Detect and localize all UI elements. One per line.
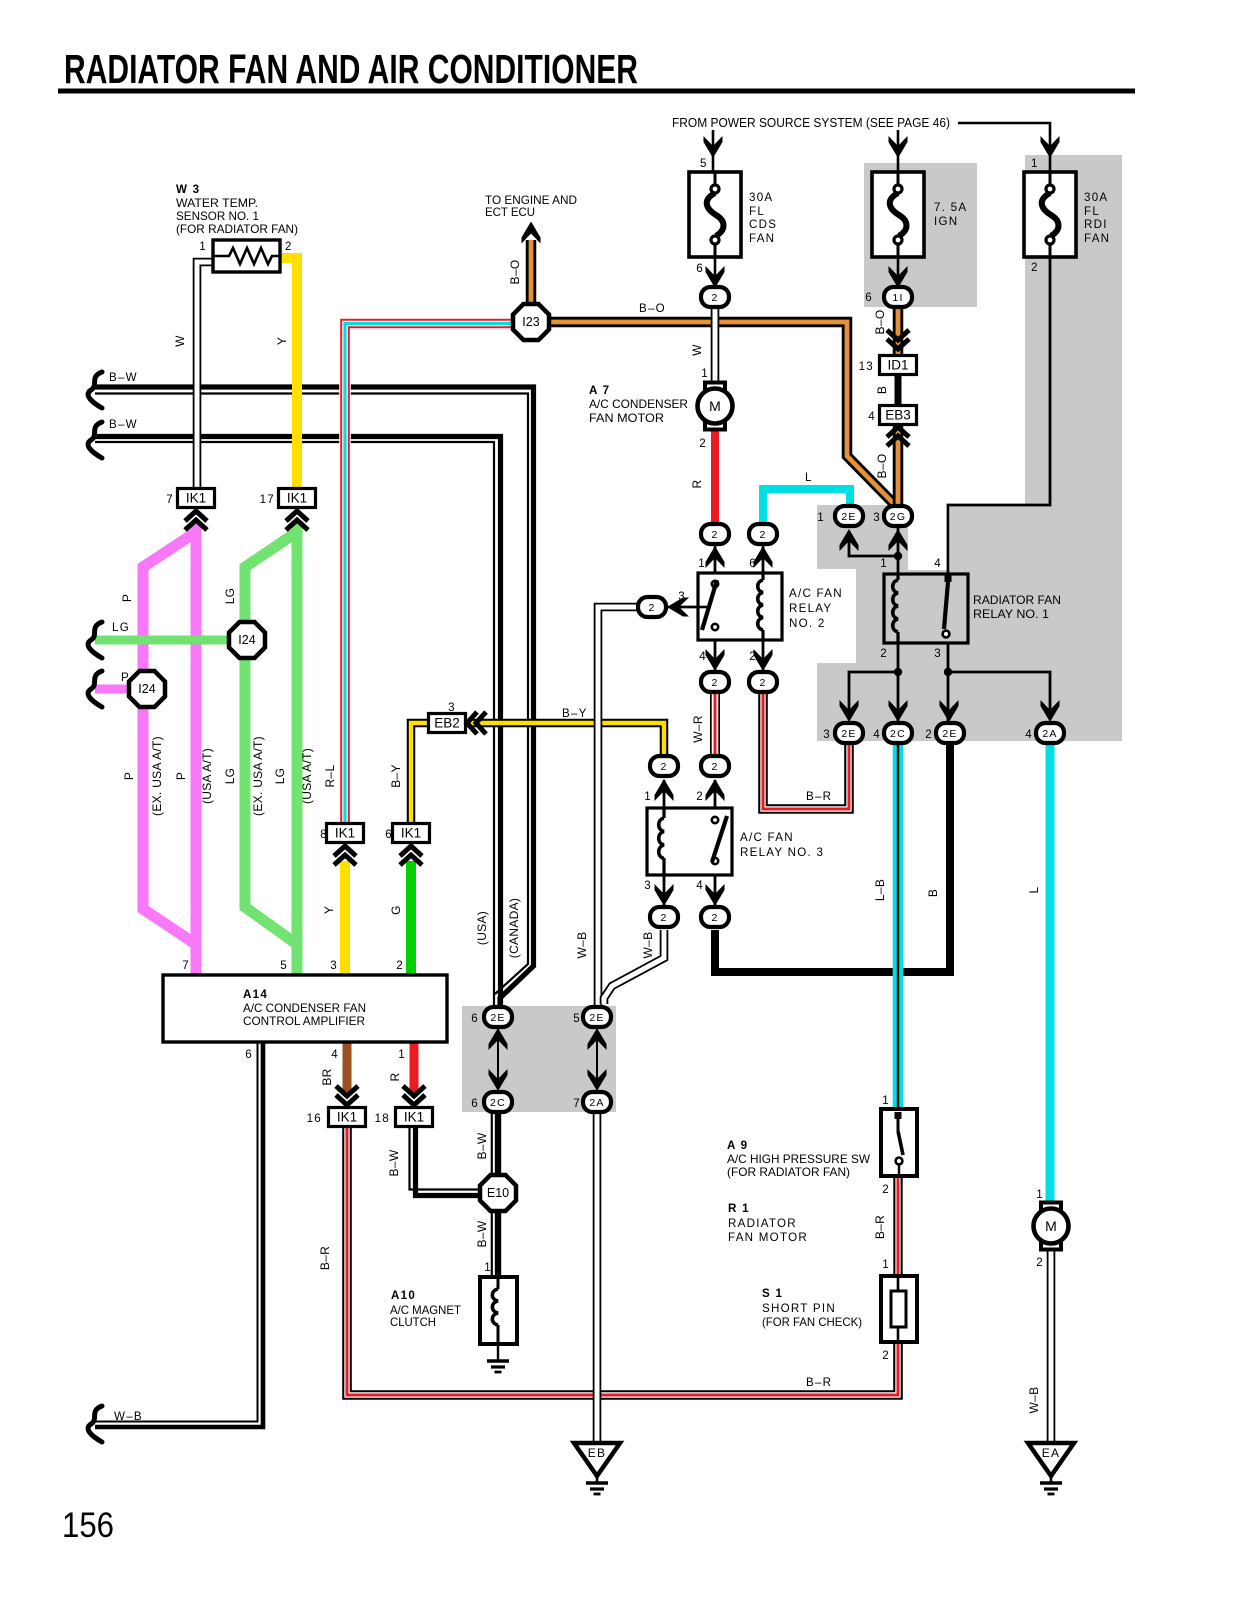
svg-text:ID1: ID1 <box>887 358 908 373</box>
chevrons into EB2 <box>467 712 486 734</box>
label A14 <box>243 988 268 1001</box>
connector 2E(5) <box>583 1007 611 1027</box>
chevrons below IK1(7) <box>185 511 207 530</box>
arrow into IGN fuse <box>889 136 908 158</box>
svg-text:R–L: R–L <box>323 765 337 788</box>
svg-text:1: 1 <box>880 557 888 570</box>
label 3 <box>644 879 652 892</box>
short pin box S1 <box>881 1276 917 1342</box>
label CONTROL AMPLIFIER <box>243 1015 365 1028</box>
label (CANADA) <box>507 898 521 958</box>
arrow up into connector above pin 6 <box>754 546 773 568</box>
relay box radiator fan relay no.1 <box>884 574 968 643</box>
arrow down into 2C(6) <box>489 1069 508 1091</box>
svg-text:2: 2 <box>749 650 757 663</box>
svg-text:2: 2 <box>1031 261 1039 274</box>
connector 2 below CDS fuse <box>701 287 729 307</box>
wire B-W bus no.2 (to USA branch) <box>95 437 501 1007</box>
label FAN <box>1084 232 1110 245</box>
svg-text:2E: 2E <box>490 1012 505 1024</box>
label NO. 2 <box>789 617 826 630</box>
connector box EB2 <box>429 714 466 733</box>
svg-text:5: 5 <box>573 1012 581 1025</box>
label R 1 <box>728 1202 750 1215</box>
wire relay no.2 pin 1 to connector <box>714 546 717 574</box>
svg-text:B–W: B–W <box>475 1132 489 1159</box>
svg-text:Y: Y <box>275 337 289 345</box>
relay no.2 switch <box>698 580 718 630</box>
label SENSOR NO. 1 <box>176 210 259 223</box>
svg-text:4: 4 <box>331 1048 339 1061</box>
label RELAY NO. 3 <box>740 846 824 859</box>
label (FOR RADIATOR FAN) <box>176 223 298 236</box>
label R–L <box>323 765 337 788</box>
clutch box A10 <box>480 1277 517 1344</box>
label BR <box>320 1068 334 1085</box>
svg-text:LG: LG <box>112 621 130 634</box>
label 1 <box>1036 1188 1044 1201</box>
amplifier box A14 <box>163 975 447 1042</box>
svg-text:I24: I24 <box>138 682 155 696</box>
wire P stub from harness brace to I24 <box>95 685 132 694</box>
svg-text:2: 2 <box>699 437 707 450</box>
svg-text:1: 1 <box>644 790 652 803</box>
wire relay no.2 pin 2 to connector <box>762 640 765 670</box>
label 16 <box>307 1112 322 1125</box>
svg-text:LG: LG <box>273 768 287 785</box>
label FAN <box>749 232 775 245</box>
svg-text:RELAY: RELAY <box>789 602 832 615</box>
connector 2A(7) <box>583 1092 611 1112</box>
wire B-R from S1 pin 2 via bottom run to IK1(16) <box>347 1127 898 1395</box>
label (EX. USA A/T) <box>251 736 265 816</box>
label CLUTCH <box>390 1316 436 1329</box>
connector IK1 pin 8 <box>327 824 364 843</box>
wire G from IK1(6) to A14 pin 2 <box>406 861 416 975</box>
label WATER TEMP. <box>176 197 258 210</box>
svg-text:2E: 2E <box>841 511 856 523</box>
svg-text:A/C CONDENSER FAN: A/C CONDENSER FAN <box>243 1002 366 1015</box>
wire B-R relay no.2 pin 2 to 2E(3) <box>763 693 849 809</box>
svg-text:7: 7 <box>182 959 190 972</box>
label 2 <box>1036 1256 1044 1269</box>
label (FOR FAN CHECK) <box>762 1316 862 1329</box>
fuse 30A FL RDI FAN <box>1024 172 1076 257</box>
arrow to engine and ECT ECU <box>522 222 541 244</box>
label 1 <box>199 240 207 253</box>
arrow into connector 1I <box>889 266 908 288</box>
wire L from 2A(4) to R1 radiator fan motor <box>1046 743 1055 1204</box>
svg-text:B–Y: B–Y <box>389 764 403 788</box>
label A 9 <box>727 1139 748 1152</box>
switch box A9 high pressure <box>881 1109 917 1176</box>
arrow down into 2E(3) <box>840 700 859 722</box>
svg-text:FAN MOTOR: FAN MOTOR <box>589 412 664 425</box>
svg-text:2: 2 <box>759 677 766 689</box>
svg-text:156: 156 <box>62 1506 114 1545</box>
label B–R <box>806 790 832 803</box>
svg-text:4: 4 <box>934 557 942 570</box>
wire L-B from 2C(4) to A9 pin 1 <box>893 743 904 1110</box>
label 4 <box>1025 728 1033 741</box>
svg-text:B–W: B–W <box>387 1149 401 1176</box>
label B–O <box>873 310 887 335</box>
wire R-L from I23 to IK1(8) <box>345 324 513 827</box>
wire B from ID1 to EB3 <box>895 373 902 407</box>
svg-text:G: G <box>389 905 403 915</box>
svg-text:2: 2 <box>696 790 704 803</box>
label 2 <box>882 1183 890 1196</box>
svg-text:FL: FL <box>1084 205 1100 218</box>
fuse 7.5A IGN <box>872 172 924 257</box>
svg-text:A/C FAN: A/C FAN <box>740 831 794 844</box>
svg-text:BR: BR <box>320 1068 334 1085</box>
junction dot at relay no.1 pin 1 <box>894 552 902 560</box>
label A/C CONDENSER FAN <box>243 1002 366 1015</box>
label RELAY NO. 1 <box>973 608 1049 621</box>
label 3 <box>448 701 456 714</box>
svg-text:FAN: FAN <box>1084 232 1110 245</box>
connector 2 below relay2 pin2 <box>749 672 777 692</box>
wire relay no.1 pin 3 down to 2E(2) and 2A(4) <box>947 643 950 723</box>
arrow up into 2E(1) <box>840 529 859 551</box>
label 2 <box>1031 261 1039 274</box>
svg-text:RADIATOR FAN AND AIR CONDITION: RADIATOR FAN AND AIR CONDITIONER <box>64 46 638 92</box>
label 4 <box>696 879 704 892</box>
fuse 30A FL CDS FAN <box>689 172 741 257</box>
wire W-B from 2A(7) to EB ground <box>593 1112 602 1444</box>
shaded region: 2E/2C/2A junction block near A14 <box>462 1006 616 1112</box>
connector 2E(3) <box>835 723 863 743</box>
label B <box>926 889 940 897</box>
label L <box>805 471 813 484</box>
wire 2E(6) to 2C(6) <box>497 1028 499 1091</box>
svg-text:P: P <box>122 772 136 780</box>
wire relay no.3 pin 1 to connector <box>663 780 666 808</box>
label RDI <box>1084 218 1108 231</box>
arrow down into 2A(7) <box>588 1069 607 1091</box>
label (USA A/T) <box>200 748 214 804</box>
power feed line to 30A CDS fuse <box>712 130 715 172</box>
label 6 <box>471 1012 479 1025</box>
svg-text:A/C CONDENSER: A/C CONDENSER <box>589 398 688 411</box>
label 17 <box>260 493 275 506</box>
wire Y from IK1(8) to A14 pin 3 <box>340 861 350 975</box>
label A10 <box>391 1289 416 1302</box>
wire B-O from EB3 down to 2G <box>893 423 904 508</box>
connector 2 above relay2 pin6 <box>749 524 777 544</box>
relay box A/C fan relay no.3 <box>647 808 732 875</box>
label 30A <box>1084 191 1108 204</box>
label 2 <box>925 728 933 741</box>
svg-text:RADIATOR: RADIATOR <box>728 1217 797 1230</box>
label A/C FAN <box>789 587 843 600</box>
label A/C MAGNET <box>390 1304 461 1317</box>
svg-text:A14: A14 <box>243 988 268 1001</box>
chevrons out of EB3 <box>887 427 909 446</box>
svg-text:LG: LG <box>223 768 237 785</box>
label 1 <box>398 1048 406 1061</box>
label RADIATOR FAN <box>973 594 1061 607</box>
svg-text:FAN: FAN <box>749 232 775 245</box>
svg-text:Y: Y <box>322 906 336 914</box>
svg-text:6: 6 <box>471 1012 479 1025</box>
svg-text:17: 17 <box>260 493 275 506</box>
wire B-W from E10 to A10 magnet clutch <box>492 1209 498 1277</box>
wire relay no.2 pin 3 to connector 2 <box>668 606 698 609</box>
wire relay no.3 pin 4 to connector <box>714 875 717 906</box>
label B–W <box>475 1132 489 1159</box>
wire B-O from I23 right, down and diagonal to 2G <box>547 322 898 508</box>
label 2 <box>882 1349 890 1362</box>
svg-text:FAN MOTOR: FAN MOTOR <box>728 1231 808 1244</box>
svg-text:B–O: B–O <box>875 454 889 479</box>
connector IK1 pin 18 <box>396 1108 433 1127</box>
page number 156 <box>62 1506 114 1545</box>
chevrons below IK1(17) <box>286 511 308 530</box>
label 3 <box>873 511 881 524</box>
junction dot below relay no.1 pin 3 <box>944 668 952 676</box>
A9 switch <box>895 1112 904 1176</box>
svg-text:IK1: IK1 <box>337 1110 357 1125</box>
svg-text:1: 1 <box>1036 1188 1044 1201</box>
arrow down into connector below pin 2 <box>754 649 773 671</box>
connector 2 above relay3 pin2 <box>701 756 729 776</box>
wire from CDS fuse to connector 2 <box>714 257 717 288</box>
svg-text:P: P <box>121 671 130 684</box>
svg-text:S 1: S 1 <box>762 1287 783 1300</box>
svg-text:(CANADA): (CANADA) <box>507 898 521 958</box>
motor R1 radiator fan <box>1034 1203 1069 1250</box>
arrow chevrons into IK1(18) <box>403 1086 425 1105</box>
svg-text:B–O: B–O <box>639 302 666 315</box>
label 7 <box>182 959 190 972</box>
label S 1 <box>762 1287 783 1300</box>
arrow into CDS fuse <box>704 136 723 158</box>
svg-text:E10: E10 <box>487 1186 509 1200</box>
arrow chevrons into IK1(16) <box>336 1086 358 1105</box>
svg-text:CLUTCH: CLUTCH <box>390 1316 436 1329</box>
svg-text:R: R <box>690 479 704 488</box>
label IGN <box>934 215 958 228</box>
svg-text:B: B <box>875 386 889 394</box>
connector 2E(2) <box>936 723 964 743</box>
svg-text:W–B: W–B <box>114 1410 143 1423</box>
label 6 <box>696 262 704 275</box>
svg-text:2: 2 <box>880 647 888 660</box>
label 1 <box>644 790 652 803</box>
wire relay no.3 pin 2 to connector <box>714 780 717 808</box>
svg-text:2A: 2A <box>589 1097 604 1109</box>
wire BR from A14 pin 4 to IK1(16) <box>343 1042 352 1092</box>
label 6 <box>385 828 393 841</box>
svg-text:2: 2 <box>660 912 667 924</box>
svg-text:EA: EA <box>1042 1446 1061 1460</box>
label W <box>173 335 187 347</box>
power feed line to 7.5A IGN fuse <box>897 130 900 172</box>
connector box ID1 <box>880 356 917 375</box>
wire 2E(5) to 2A(7) <box>596 1028 598 1091</box>
label 7. 5A <box>934 201 967 214</box>
label W 3 <box>176 183 200 196</box>
svg-text:30A: 30A <box>749 191 773 204</box>
svg-text:2: 2 <box>759 529 766 541</box>
label A/C HIGH PRESSURE SW <box>727 1153 870 1166</box>
svg-text:6: 6 <box>471 1097 479 1110</box>
label RELAY <box>789 602 832 615</box>
connector 2E(1) <box>835 506 863 526</box>
label 3 <box>934 647 942 660</box>
label SHORT PIN <box>762 1302 836 1315</box>
relay no.1 switch <box>943 575 952 637</box>
svg-text:3: 3 <box>644 879 652 892</box>
title underline rule <box>58 89 1135 94</box>
label 6 <box>749 557 757 570</box>
svg-text:4: 4 <box>1025 728 1033 741</box>
svg-text:B–O: B–O <box>873 310 887 335</box>
svg-text:2: 2 <box>660 761 667 773</box>
label RADIATOR <box>728 1217 797 1230</box>
wire B from relay no.3 pin 4 to 2E(2) <box>715 744 950 972</box>
label 13 <box>859 360 874 373</box>
svg-text:EB: EB <box>588 1446 607 1460</box>
svg-text:A 9: A 9 <box>727 1139 748 1152</box>
svg-text:B–R: B–R <box>873 1215 887 1239</box>
label FAN MOTOR <box>589 412 664 425</box>
arrow down into 2E(2) <box>940 700 959 722</box>
svg-text:IK1: IK1 <box>335 826 355 841</box>
svg-text:3: 3 <box>678 590 686 603</box>
svg-text:A10: A10 <box>391 1289 416 1302</box>
wire W from connector 2 to A7 motor <box>711 306 720 385</box>
label 6 <box>471 1097 479 1110</box>
label LG <box>273 768 287 785</box>
label (EX. USA A/T) <box>150 736 164 816</box>
label 5 <box>700 157 708 170</box>
svg-text:P: P <box>174 772 188 780</box>
svg-text:FL: FL <box>749 205 765 218</box>
svg-text:30A: 30A <box>1084 191 1108 204</box>
wire B-O from I23 up to engine/ECT ECU arrow <box>526 240 537 306</box>
arrow up into connector above relay3 pin 1 <box>655 779 674 801</box>
svg-text:CONTROL AMPLIFIER: CONTROL AMPLIFIER <box>243 1015 365 1028</box>
label Y <box>322 906 336 914</box>
octagon I24 on LG wire <box>229 622 265 658</box>
svg-text:(FOR RADIATOR FAN): (FOR RADIATOR FAN) <box>727 1166 850 1179</box>
svg-text:FROM POWER SOURCE SYSTEM (SEE: FROM POWER SOURCE SYSTEM (SEE PAGE 46) <box>672 115 950 130</box>
label (FOR RADIATOR FAN) <box>727 1166 850 1179</box>
svg-text:2A: 2A <box>1042 728 1057 740</box>
wire R from A14 pin 1 to IK1(18) <box>410 1042 419 1092</box>
title text <box>64 46 638 92</box>
brace at B-W no.1 <box>88 372 102 408</box>
svg-text:2: 2 <box>396 959 404 972</box>
brace at P stub <box>88 671 102 707</box>
label P <box>121 671 130 684</box>
label B–O <box>508 260 522 285</box>
branch wire to 2E(1) <box>849 531 898 556</box>
connector 2 above relay3 pin1 <box>650 756 678 776</box>
svg-text:2: 2 <box>711 677 718 689</box>
connector 2C(6) <box>484 1092 512 1112</box>
wire W-B from relay no.3 pin 3 to 2E(5) <box>604 930 664 1004</box>
label LG <box>112 621 130 634</box>
label 3 <box>823 728 831 741</box>
svg-text:(EX. USA A/T): (EX. USA A/T) <box>251 736 265 816</box>
wire 2G to relay no.1 pin 1 with junction <box>897 527 900 574</box>
wire LG stub from harness brace to I24 <box>95 636 232 645</box>
svg-text:IGN: IGN <box>934 215 958 228</box>
wire relay no.3 pin 3 to connector <box>663 875 666 906</box>
svg-text:1: 1 <box>698 557 706 570</box>
label 5 <box>280 959 288 972</box>
connector IK1 pin 6 <box>393 824 430 843</box>
label B–R <box>318 1246 332 1270</box>
svg-text:B–W: B–W <box>109 418 138 431</box>
label 1 <box>484 1261 492 1274</box>
label G <box>389 905 403 915</box>
svg-text:B: B <box>926 889 940 897</box>
octagon I23 <box>513 304 549 340</box>
svg-text:13: 13 <box>859 360 874 373</box>
connector IK1 pin 7 <box>178 489 215 508</box>
label LG <box>223 588 237 605</box>
svg-text:7. 5A: 7. 5A <box>934 201 967 214</box>
svg-text:NO. 2: NO. 2 <box>789 617 826 630</box>
label CDS <box>749 218 777 231</box>
svg-text:W 3: W 3 <box>176 183 200 196</box>
svg-text:W: W <box>690 344 704 356</box>
svg-text:RADIATOR FAN: RADIATOR FAN <box>973 594 1061 607</box>
connector IK1 pin 17 <box>279 489 316 508</box>
connector 2C(4) <box>884 723 912 743</box>
svg-text:I24: I24 <box>238 633 255 647</box>
svg-text:RELAY NO. 3: RELAY NO. 3 <box>740 846 824 859</box>
connector 1I below IGN fuse <box>884 287 912 307</box>
label L <box>1027 886 1041 893</box>
svg-text:2: 2 <box>882 1349 890 1362</box>
svg-text:6: 6 <box>245 1048 253 1061</box>
chevrons into ID1 <box>887 330 909 349</box>
svg-text:1: 1 <box>882 1258 890 1271</box>
svg-text:B–O: B–O <box>508 260 522 285</box>
label 5 <box>573 1012 581 1025</box>
label 7 <box>166 493 174 506</box>
svg-text:EB2: EB2 <box>434 716 460 731</box>
label B–R <box>873 1215 887 1239</box>
svg-text:1: 1 <box>1031 157 1039 170</box>
connector 2 below relay2 pin4 <box>701 672 729 692</box>
connector 2G(3) <box>884 506 912 526</box>
wire R from A7 motor to connector 2 (relay no.2 pin 1) <box>711 428 719 524</box>
svg-text:4: 4 <box>696 879 704 892</box>
svg-text:B–R: B–R <box>806 1376 832 1389</box>
label 1 <box>817 511 825 524</box>
label (USA) <box>475 911 489 945</box>
label 4 <box>873 728 881 741</box>
arrow into connector 2 below CDS fuse <box>706 266 725 288</box>
wire B-W bus no.1 (to CANADA branch) <box>95 387 534 1006</box>
label FAN MOTOR <box>728 1231 808 1244</box>
svg-text:4: 4 <box>699 650 707 663</box>
svg-text:18: 18 <box>375 1112 390 1125</box>
wire L from relay no.2 pin 6 connector to 2E(1) <box>763 489 850 525</box>
wire B-W from 2C(6) to E10 <box>492 1112 498 1177</box>
label 2 <box>880 647 888 660</box>
svg-text:W–B: W–B <box>1027 1387 1041 1414</box>
label R <box>388 1072 402 1081</box>
arrow up into 2E(6) <box>489 1028 508 1050</box>
